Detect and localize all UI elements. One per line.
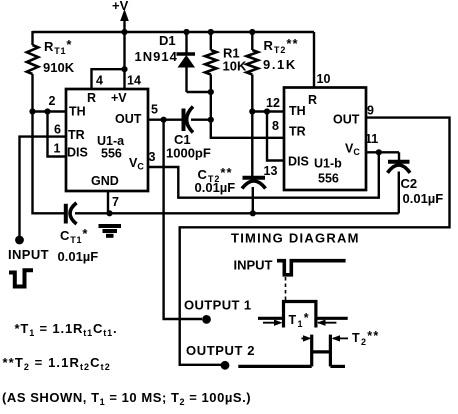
svg-text:DIS: DIS — [288, 155, 309, 169]
diode D1 1N914 — [135, 32, 196, 92]
svg-text:TIMING DIAGRAM: TIMING DIAGRAM — [231, 231, 360, 246]
svg-text:OUTPUT 2: OUTPUT 2 — [186, 343, 255, 358]
wire: Vc tie line pin11 to pin3 — [148, 152, 379, 197]
svg-text:5: 5 — [151, 103, 158, 117]
svg-text:13: 13 — [264, 164, 278, 178]
svg-text:R: R — [87, 91, 96, 105]
capacitor CT1 0.01uF — [58, 203, 99, 264]
op-amp U1-a 556 box — [66, 89, 148, 191]
svg-text:12: 12 — [266, 96, 280, 110]
wire: OUTPUT1 from pin5 node — [164, 120, 202, 319]
wire: pin7 GND lead — [107, 191, 109, 213]
input pulse symbol — [9, 270, 33, 286]
svg-text:DIS: DIS — [67, 146, 88, 160]
svg-text:OUT: OUT — [333, 113, 360, 127]
svg-text:INPUT: INPUT — [8, 247, 49, 262]
T2 dimension arrows — [301, 329, 379, 347]
wire: D1 cathode to R1 — [187, 91, 211, 93]
svg-text:556: 556 — [101, 147, 122, 161]
svg-text:RT2**: RT2** — [264, 36, 299, 55]
resistor R1 10K — [205, 32, 247, 120]
capacitor C1 1000pF — [166, 107, 211, 161]
wire: pin9 OUT of U1-b to right edge down to OUTPUT2 — [180, 118, 450, 365]
wire: CT2 bottom to ground rail — [252, 187, 254, 213]
ground symbol — [99, 226, 122, 236]
svg-text:VC: VC — [129, 156, 144, 172]
wire: pin4 reset lead — [92, 69, 125, 89]
svg-text:D1: D1 — [159, 33, 176, 48]
wire: pin2 TH into U1-a — [33, 110, 68, 112]
svg-text:TR: TR — [68, 128, 85, 142]
wire: pin12 TH into U1-b — [252, 110, 285, 112]
wire: pin14 +V lead from bus — [123, 32, 125, 89]
svg-text:9.1K: 9.1K — [263, 57, 297, 72]
wire: INPUT to pin6 TR — [20, 137, 68, 238]
svg-text:RT1*: RT1* — [44, 37, 72, 56]
timing output1 waveform — [258, 302, 348, 328]
svg-text:556: 556 — [318, 172, 339, 186]
node: bus junction at RT2 — [249, 29, 255, 35]
wire: RT2 node down to CT2 — [251, 112, 253, 177]
svg-text:3: 3 — [149, 150, 156, 164]
svg-text:10K: 10K — [223, 59, 247, 74]
svg-text:GND: GND — [91, 174, 119, 188]
wire: ground rail — [75, 212, 399, 214]
svg-text:14: 14 — [127, 74, 141, 88]
svg-text:1N914: 1N914 — [135, 49, 178, 64]
resistor RT1 910K — [27, 37, 75, 75]
svg-text:(AS SHOWN, T1 = 10 MS; T2 = 10: (AS SHOWN, T1 = 10 MS; T2 = 100µS.) — [2, 390, 251, 407]
wire: RT1 bottom to TH node — [31, 74, 33, 113]
svg-text:2: 2 — [49, 94, 56, 108]
node: bus junction at +V arrow — [121, 29, 127, 35]
svg-text:T2**: T2** — [352, 329, 380, 347]
node: ground junction at pin7 — [106, 210, 112, 216]
wire: trigger node to pin8 TR of U1-b — [211, 120, 285, 138]
node: OUTPUT 2 terminal — [221, 361, 230, 370]
T1 dimension arrows — [263, 311, 336, 329]
svg-text:C2: C2 — [401, 176, 418, 191]
node: bus junction at D1 — [183, 29, 189, 35]
svg-text:U1-b: U1-b — [314, 157, 342, 171]
wire: bus right corner to pin10 — [313, 32, 315, 88]
node: RT2 bottom TH junction — [249, 108, 255, 114]
svg-text:R: R — [308, 93, 317, 107]
svg-text:+V: +V — [111, 91, 127, 105]
svg-text:1: 1 — [54, 142, 61, 156]
svg-text:TH: TH — [289, 104, 306, 118]
svg-text:10: 10 — [317, 72, 331, 86]
node: D1/R1 junction — [208, 89, 214, 95]
svg-text:OUTPUT 1: OUTPUT 1 — [184, 298, 251, 313]
wire: C1 to R1 node — [191, 118, 211, 120]
svg-text:VC: VC — [345, 142, 360, 158]
wire: +V bus rail — [33, 31, 315, 33]
wire: pin5 OUT of U1-a — [148, 118, 183, 120]
wire: TH-DIS tie vertical — [48, 112, 68, 157]
svg-text:0.01µF: 0.01µF — [403, 191, 444, 206]
svg-text:0.01µF: 0.01µF — [58, 249, 99, 264]
svg-text:6: 6 — [54, 123, 61, 137]
capacitor C2 0.01uF — [388, 152, 444, 213]
node: OUTPUT 1 terminal — [202, 315, 211, 324]
+V supply arrow — [112, 0, 129, 33]
capacitor CT2 0.01uF — [195, 165, 266, 195]
node: CT2 ground junction — [250, 210, 256, 216]
svg-text:TR: TR — [289, 125, 306, 139]
node: pin4 branch junction — [121, 66, 127, 72]
svg-text:CT1*: CT1* — [60, 226, 88, 245]
timing input waveform — [277, 261, 346, 275]
wire: TH node down left side to CT1 — [33, 112, 65, 214]
wire: TH-DIS tie vertical U1-b — [267, 112, 285, 161]
dashed trigger line — [285, 277, 287, 303]
node: TH/DIS junction at RT1 — [29, 108, 35, 114]
op-amp U1-b 556 box — [284, 88, 366, 191]
node: junction TH/DIS tie — [44, 108, 50, 114]
resistor RT2 9.1K — [247, 32, 299, 112]
svg-text:T1*: T1* — [289, 311, 310, 329]
svg-text:+V: +V — [112, 0, 129, 13]
wire: bus left corner down to RT1 — [31, 31, 33, 45]
node: Vc junction — [376, 149, 382, 155]
timing output2 waveform — [238, 335, 345, 367]
svg-text:8: 8 — [272, 119, 279, 133]
svg-text:INPUT: INPUT — [234, 258, 273, 273]
svg-text:**T2 = 1.1Rt2Ct2: **T2 = 1.1Rt2Ct2 — [3, 355, 111, 372]
node: C1/R1/TR junction — [208, 117, 214, 123]
node: bus junction at R1 — [208, 29, 214, 35]
svg-text:9: 9 — [367, 104, 374, 118]
svg-text:910K: 910K — [43, 60, 75, 75]
svg-text:4: 4 — [96, 74, 103, 88]
svg-text:1000pF: 1000pF — [166, 146, 211, 161]
svg-text:11: 11 — [365, 132, 378, 146]
svg-text:0.01µF: 0.01µF — [195, 180, 236, 195]
node: OUT1 takeoff junction — [161, 117, 167, 123]
svg-text:OUT: OUT — [115, 112, 142, 126]
node: INPUT terminal — [15, 236, 24, 245]
svg-text:7: 7 — [112, 195, 119, 209]
svg-text:*T1 = 1.1Rt1Ct1.: *T1 = 1.1Rt1Ct1. — [15, 321, 118, 338]
wire: pin11 Vc of U1-b — [366, 151, 399, 153]
node: TH/DIS tie junction U1-b — [264, 108, 270, 114]
svg-text:TH: TH — [69, 105, 86, 119]
